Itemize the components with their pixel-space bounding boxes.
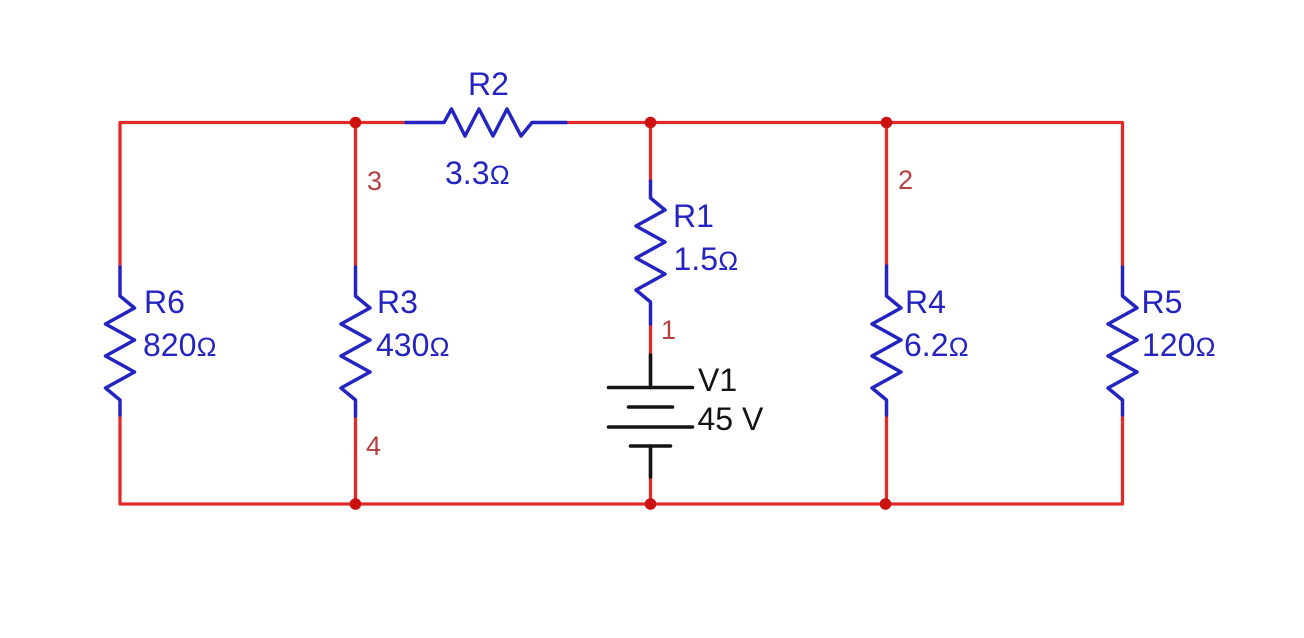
wire R1 branch top (net 2) (649, 123, 652, 182)
V1 plate 4 (short, -) (631, 444, 671, 448)
resistor R3 (341, 267, 370, 416)
wire bottom rail (net 4) (120, 415, 1123, 504)
svg-text:820Ω: 820Ω (143, 327, 217, 363)
resistor R2 (406, 109, 566, 136)
svg-text:45 V: 45 V (698, 401, 764, 437)
V1 plate 1 (long, +) (609, 386, 693, 390)
svg-text:V1: V1 (698, 362, 737, 398)
svg-text:R2: R2 (468, 66, 509, 102)
wire V1 bottom (net 4) (649, 477, 652, 504)
svg-text:3.3Ω: 3.3Ω (445, 155, 510, 191)
battery V1 (609, 355, 693, 477)
wire R3 branch lower (net 4) (354, 416, 357, 504)
wire R4 branch lower (net 4) (885, 415, 888, 504)
svg-text:R3: R3 (377, 284, 418, 320)
wire top-right segment (net 2) (566, 123, 1123, 268)
svg-text:R6: R6 (144, 284, 185, 320)
junction node 2 at R4 top (881, 117, 893, 129)
wire R1 to V1 (net 1) (649, 324, 652, 355)
resistor R1 (636, 181, 665, 324)
resistor R4 (872, 266, 901, 415)
svg-text:2: 2 (898, 165, 913, 195)
svg-text:430Ω: 430Ω (376, 327, 450, 363)
svg-text:3: 3 (367, 166, 382, 196)
junction node 3 top (350, 117, 362, 129)
wire top-left + left upper segment (net 3) (120, 123, 406, 268)
V1 plate 2 (short, -) (629, 405, 673, 409)
junction node 4 at V1 bottom (645, 498, 657, 510)
wire R3 branch upper (net 3) (354, 123, 357, 268)
svg-text:R1: R1 (673, 198, 714, 234)
svg-text:1: 1 (661, 315, 676, 345)
svg-text:120Ω: 120Ω (1142, 327, 1216, 363)
V1 top lead (649, 355, 653, 388)
svg-text:R4: R4 (905, 284, 946, 320)
junction node 2 at R1 top (645, 117, 657, 129)
svg-text:4: 4 (366, 431, 381, 461)
resistor R6 (106, 267, 135, 415)
V1 plate 3 (long, +) (609, 425, 693, 429)
svg-text:R5: R5 (1142, 284, 1183, 320)
wire R4 branch upper (net 2) (885, 123, 888, 267)
svg-text:1.5Ω: 1.5Ω (674, 241, 739, 277)
resistor R5 (1108, 267, 1137, 415)
junction node 4 at R3 bottom (350, 498, 362, 510)
junction node 4 at R4 bottom (880, 498, 892, 510)
svg-text:6.2Ω: 6.2Ω (904, 327, 969, 363)
V1 bottom lead (649, 446, 653, 477)
